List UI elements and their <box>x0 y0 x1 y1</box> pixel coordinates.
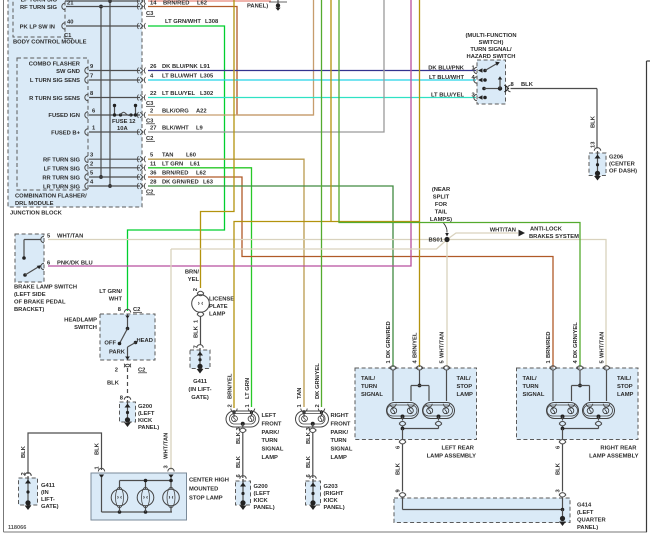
svg-text:PARK: PARK <box>109 350 126 356</box>
wire: BLK/WHT L9 to top edge <box>148 0 384 132</box>
svg-text:FUSED B+: FUSED B+ <box>51 131 80 137</box>
svg-text:LF TURN SIG: LF TURN SIG <box>21 0 58 4</box>
wire: DK GRN/YEL to right front lamp <box>321 0 323 407</box>
svg-text:LAMP: LAMP <box>617 392 634 398</box>
svg-text:WHT/TAN: WHT/TAN <box>57 234 83 240</box>
wire: BRN/RED L62 to right rear lamp <box>148 177 553 367</box>
svg-text:(IN LIFT-: (IN LIFT- <box>188 387 211 393</box>
wire: WHT/TAN stop lamp branch to BG01 <box>171 240 447 249</box>
svg-text:HEAD: HEAD <box>137 338 153 344</box>
svg-text:PLATE: PLATE <box>209 304 228 310</box>
wire: BLK/ORG vertical to top edge <box>237 0 314 115</box>
svg-text:STOP LAMP: STOP LAMP <box>189 496 223 502</box>
svg-text:SWITCH): SWITCH) <box>479 40 504 46</box>
svg-text:TURN: TURN <box>361 384 377 390</box>
svg-text:LIFT-: LIFT- <box>41 497 55 503</box>
svg-text:DK GRN/YEL: DK GRN/YEL <box>315 363 321 399</box>
ground G414 (left quarter panel) <box>394 498 606 531</box>
svg-text:DK GRN/RED: DK GRN/RED <box>162 180 199 186</box>
label C3 <box>146 11 155 17</box>
svg-text:BODY CONTROL MODULE: BODY CONTROL MODULE <box>13 40 87 46</box>
wire: DK GRN/YEL from top to right rear lamp <box>339 0 580 367</box>
svg-text:CENTER HIGH: CENTER HIGH <box>189 478 229 484</box>
svg-text:BLK: BLK <box>21 445 27 458</box>
svg-text:2: 2 <box>193 288 199 291</box>
wire: BRN/YEL vertical from top (feed) <box>330 0 332 222</box>
svg-text:KICK: KICK <box>138 418 153 424</box>
svg-text:36: 36 <box>150 171 157 177</box>
svg-text:40: 40 <box>67 20 73 26</box>
svg-text:JUNCTION BLOCK: JUNCTION BLOCK <box>10 211 63 217</box>
svg-text:(LEFT: (LEFT <box>577 510 594 516</box>
svg-text:L TURN SIG SENS: L TURN SIG SENS <box>30 78 80 84</box>
svg-text:G200: G200 <box>138 404 152 410</box>
svg-text:BLK: BLK <box>521 82 534 88</box>
wire segment right edge top corner <box>647 60 650 62</box>
svg-text:WHT/TAN: WHT/TAN <box>490 228 516 234</box>
svg-text:BLK: BLK <box>107 381 120 387</box>
svg-text:ANTI-LOCK: ANTI-LOCK <box>530 227 563 233</box>
ground (kick panel, cut off) <box>247 0 287 11</box>
svg-text:RIGHT: RIGHT <box>331 413 349 419</box>
svg-text:2: 2 <box>150 109 153 115</box>
lamp: center high mounted stop lamp <box>91 466 229 521</box>
node: BG01 splice callout <box>430 187 452 237</box>
wire: BLK/ORG A22 <box>148 114 314 116</box>
svg-text:2: 2 <box>315 404 321 407</box>
svg-text:TURN: TURN <box>331 438 347 444</box>
svg-text:PANEL): PANEL) <box>324 505 345 511</box>
lamp assembly: left rear (tail/turn + tail/stop) <box>355 321 477 497</box>
node BS01 splice dot <box>428 237 449 244</box>
svg-text:BLK: BLK <box>396 462 402 475</box>
svg-text:10A: 10A <box>117 126 128 132</box>
svg-text:STOP: STOP <box>457 384 473 390</box>
svg-text:L62: L62 <box>196 171 206 177</box>
svg-text:BS01: BS01 <box>428 238 443 244</box>
svg-text:KICK: KICK <box>254 498 269 504</box>
svg-text:LAMP: LAMP <box>457 392 474 398</box>
svg-text:A22: A22 <box>196 109 207 115</box>
svg-text:BLK 3: BLK 3 <box>236 426 242 444</box>
svg-text:TAIL/: TAIL/ <box>617 376 631 382</box>
wire: BRN/RED L62 from pin 14 (right, down, right, up offpage) <box>148 7 237 115</box>
wire: BLK dashed from headlamp switch to G200 <box>107 368 128 402</box>
wire: BLK from hazard switch to G206 <box>511 82 598 149</box>
svg-text:BRN/RED: BRN/RED <box>163 1 189 7</box>
wire: LT BLU/WHT L305 <box>148 79 476 81</box>
svg-text:COMBO FLASHER: COMBO FLASHER <box>29 62 81 68</box>
wire: DK BLU/PNK L91 <box>148 70 476 72</box>
svg-text:BRN/YEL: BRN/YEL <box>413 332 419 358</box>
ground G200 left kick panel (2) <box>236 476 275 511</box>
lamp: right front park/turn signal lamp <box>296 409 353 462</box>
wire: TAN L60 to right front lamp <box>148 159 304 407</box>
svg-text:14: 14 <box>150 1 157 7</box>
svg-text:BLK/WHT: BLK/WHT <box>162 126 189 132</box>
wire: LT GRN L61 to left front lamp <box>148 168 252 407</box>
node: R TURN SIG SENS pin 8 <box>29 91 213 102</box>
svg-text:BRACKET): BRACKET) <box>14 307 44 313</box>
svg-text:L302: L302 <box>200 91 213 97</box>
svg-text:G206: G206 <box>609 155 624 161</box>
node: L TURN SIG SENS pin 7 <box>30 74 214 85</box>
svg-text:L60: L60 <box>186 153 196 159</box>
svg-text:PANEL): PANEL) <box>577 525 598 531</box>
svg-text:BLK/ORG: BLK/ORG <box>162 109 189 115</box>
svg-text:LT BLU/YEL: LT BLU/YEL <box>431 93 465 99</box>
svg-text:FRONT: FRONT <box>262 421 282 427</box>
ground G203 (right kick panel) <box>306 476 345 511</box>
svg-text:FUSE 12: FUSE 12 <box>112 119 136 125</box>
wire: LT GRN/WHT L308 to headlamp switch <box>128 26 225 311</box>
svg-text:LAMP: LAMP <box>331 455 348 461</box>
svg-text:PARK/: PARK/ <box>331 430 349 436</box>
svg-text:LAMP: LAMP <box>209 312 226 318</box>
svg-text:SIGNAL: SIGNAL <box>361 392 383 398</box>
svg-text:(MULTI-FUNCTION: (MULTI-FUNCTION <box>465 33 516 39</box>
svg-text:LF TURN SIG: LF TURN SIG <box>44 166 81 172</box>
svg-text:L61: L61 <box>190 161 201 167</box>
node: PK LP SW IN pin 40 <box>20 19 219 31</box>
svg-text:(LEFT: (LEFT <box>254 491 271 497</box>
svg-text:(RIGHT: (RIGHT <box>324 491 344 497</box>
svg-text:PANEL): PANEL) <box>254 505 275 511</box>
svg-text:LAMP ASSEMBLY: LAMP ASSEMBLY <box>427 454 477 460</box>
svg-text:LT GRN: LT GRN <box>162 161 183 167</box>
wire: top cut pink wire to ground <box>148 0 271 2</box>
wire: PNK/DK BLU to top edge <box>48 0 411 266</box>
svg-text:TAN: TAN <box>297 388 303 399</box>
svg-text:COMBINATION FLASHER/: COMBINATION FLASHER/ <box>15 194 87 200</box>
svg-text:DK GRN/YEL: DK GRN/YEL <box>573 322 579 358</box>
page border bottom <box>4 531 648 533</box>
svg-text:HEADLAMP: HEADLAMP <box>64 318 97 324</box>
svg-text:YEL: YEL <box>188 277 200 283</box>
svg-text:28: 28 <box>150 180 157 186</box>
label C2 <box>146 136 155 142</box>
svg-text:DK BLU/PNK: DK BLU/PNK <box>162 64 199 70</box>
svg-text:DRL MODULE: DRL MODULE <box>15 201 54 207</box>
wire: BLK license lamp to G411 <box>194 316 201 349</box>
svg-text:BLK 3: BLK 3 <box>306 426 312 444</box>
ground G200 (left kick panel) <box>120 397 160 431</box>
svg-text:TAIL/: TAIL/ <box>361 376 375 382</box>
label C3 <box>146 119 155 125</box>
svg-text:2: 2 <box>115 368 118 374</box>
svg-text:27: 27 <box>150 126 156 132</box>
wire: junction tie LF-LR vertical <box>108 0 112 188</box>
wire: BLK CHMSL to liftgate ground <box>21 433 102 476</box>
svg-text:FRONT: FRONT <box>331 421 351 427</box>
svg-text:26: 26 <box>150 64 157 70</box>
svg-text:G203: G203 <box>324 484 339 490</box>
svg-text:LICENSE: LICENSE <box>209 297 234 303</box>
svg-text:LEFT REAR: LEFT REAR <box>441 446 474 452</box>
wire: WHT/TAN down to center stop lamp <box>164 249 172 470</box>
wire: LT BLU/YEL L302 <box>148 97 476 99</box>
svg-text:OF DASH): OF DASH) <box>609 169 637 175</box>
svg-text:TAIL/: TAIL/ <box>523 376 537 382</box>
svg-text:LT BLU/WHT: LT BLU/WHT <box>429 75 464 81</box>
svg-text:LT GRN/: LT GRN/ <box>99 289 122 295</box>
svg-text:WHT/TAN: WHT/TAN <box>600 332 606 358</box>
svg-text:RIGHT REAR: RIGHT REAR <box>600 446 637 452</box>
svg-text:BLK: BLK <box>236 455 242 468</box>
fuse F12 10A <box>112 104 137 132</box>
svg-text:L62: L62 <box>197 1 207 7</box>
svg-text:2: 2 <box>228 404 234 407</box>
svg-text:L63: L63 <box>203 180 214 186</box>
svg-text:(NEAR: (NEAR <box>432 187 451 193</box>
svg-text:L91: L91 <box>200 64 211 70</box>
svg-text:WHT/TAN: WHT/TAN <box>164 433 170 459</box>
svg-text:BLK: BLK <box>591 115 597 128</box>
node: LR TURN SIG pin 4 <box>43 180 214 191</box>
wire: BRN/YEL vertical top to left rear pin 4 <box>419 0 421 367</box>
node: COMBO FLASHER SW GND pin 9 <box>29 62 211 76</box>
svg-text:(CENTER: (CENTER <box>609 162 636 168</box>
svg-text:LAMPS): LAMPS) <box>430 217 452 223</box>
svg-text:MOUNTED: MOUNTED <box>189 487 218 493</box>
wire: BRN/YEL bus to front/rear lamps <box>234 222 420 409</box>
svg-text:118066: 118066 <box>8 525 26 531</box>
svg-text:BRN/RED: BRN/RED <box>546 332 552 358</box>
svg-text:SWITCH: SWITCH <box>74 325 97 331</box>
svg-text:7: 7 <box>90 74 93 80</box>
node: FUSED B+ pin 1 <box>51 126 203 137</box>
ground G411 (in liftgate) <box>188 345 211 401</box>
svg-text:PK LP SW IN: PK LP SW IN <box>20 25 55 31</box>
svg-text:G200: G200 <box>254 484 268 490</box>
svg-text:BRAKES SYSTEM: BRAKES SYSTEM <box>529 234 579 240</box>
svg-text:LR TURN SIG: LR TURN SIG <box>43 184 81 190</box>
svg-text:G414: G414 <box>577 503 592 509</box>
svg-text:G411: G411 <box>193 379 208 385</box>
svg-text:OFF: OFF <box>104 341 116 347</box>
svg-text:WHT: WHT <box>109 297 123 303</box>
svg-text:SIGNAL: SIGNAL <box>331 447 353 453</box>
svg-text:R TURN SIG SENS: R TURN SIG SENS <box>29 96 80 102</box>
switch: headlamp switch label <box>64 318 97 332</box>
svg-text:L305: L305 <box>200 74 214 80</box>
svg-text:WHT/TAN: WHT/TAN <box>440 332 446 358</box>
svg-text:BLK: BLK <box>194 325 200 338</box>
labels left front lamp pins <box>228 373 252 407</box>
svg-text:PANEL): PANEL) <box>247 4 268 10</box>
svg-text:BLK: BLK <box>95 442 101 455</box>
svg-text:TAIL: TAIL <box>435 210 448 216</box>
label C3 <box>146 101 155 107</box>
lamp assembly: right rear (tail/turn + tail/stop) <box>517 322 639 497</box>
svg-text:22: 22 <box>150 91 156 97</box>
combination flasher / DRL module box <box>15 58 88 207</box>
svg-text:LT GRN: LT GRN <box>245 378 251 399</box>
op: multi-function switch header <box>465 33 516 60</box>
svg-text:TURN: TURN <box>523 384 539 390</box>
svg-text:RR TURN SIG: RR TURN SIG <box>42 175 80 181</box>
svg-text:TAIL/: TAIL/ <box>457 376 471 382</box>
wire: WHT/TAN BG01 branch to anti-lock <box>447 233 518 240</box>
svg-text:FUSED IGN: FUSED IGN <box>48 113 80 119</box>
svg-text:SW GND: SW GND <box>56 69 80 75</box>
wire: BRN/YEL from top to license plate lamp <box>201 0 235 288</box>
ground G411 in liftgate (2) <box>19 473 59 510</box>
wire: right page edge vertical <box>646 61 648 532</box>
svg-text:GATE): GATE) <box>191 395 209 401</box>
svg-text:BRN/YEL: BRN/YEL <box>228 373 234 399</box>
page border left <box>3 0 5 532</box>
label C1 <box>64 33 73 39</box>
label C2 <box>146 190 155 196</box>
svg-text:BRAKE LAMP SWITCH: BRAKE LAMP SWITCH <box>14 285 77 291</box>
svg-text:LT BLU/WHT: LT BLU/WHT <box>162 74 197 80</box>
lamp: left front park/turn signal lamp <box>226 409 284 462</box>
wire: DK GRN/RED L63 to left rear lamp <box>148 186 393 367</box>
svg-text:STOP: STOP <box>617 384 633 390</box>
svg-text:LT GRN/WHT: LT GRN/WHT <box>165 19 201 25</box>
svg-text:FOR: FOR <box>435 202 448 208</box>
multi-function switch box U1 <box>428 60 514 104</box>
wire: WHT/TAN BG01 down to left rear <box>446 240 448 368</box>
svg-text:DK BLU/PNK: DK BLU/PNK <box>428 66 465 72</box>
svg-text:PANEL): PANEL) <box>138 425 159 431</box>
svg-text:TAN: TAN <box>162 153 173 159</box>
svg-text:SIGNAL: SIGNAL <box>523 392 545 398</box>
svg-text:2: 2 <box>90 161 93 167</box>
body control module box <box>13 0 87 46</box>
ground G206 (center of dash) <box>589 148 637 181</box>
svg-text:DK GRN/RED: DK GRN/RED <box>386 321 392 358</box>
svg-text:HAZARD SWITCH: HAZARD SWITCH <box>467 54 516 60</box>
node: anti-lock brakes system arrow <box>490 227 579 241</box>
svg-text:BRN/: BRN/ <box>185 270 200 276</box>
svg-text:OF BRAKE PEDAL: OF BRAKE PEDAL <box>14 300 66 306</box>
svg-text:13: 13 <box>591 141 597 148</box>
svg-text:BRN/RED: BRN/RED <box>162 171 188 177</box>
svg-text:SPLIT: SPLIT <box>433 195 450 201</box>
svg-text:21: 21 <box>67 1 74 7</box>
svg-text:GATE): GATE) <box>41 504 59 510</box>
node: LF TURN SIG pin 2 <box>44 161 201 172</box>
lamp: license plate lamp <box>185 270 234 318</box>
svg-text:LT BLU/YEL: LT BLU/YEL <box>162 91 196 97</box>
node: junction edge pin 2 BLK/ORG <box>137 109 206 119</box>
svg-text:L9: L9 <box>196 126 204 132</box>
svg-text:QUARTER: QUARTER <box>577 518 606 524</box>
svg-text:G411: G411 <box>41 483 56 489</box>
svg-text:PARK/: PARK/ <box>262 430 280 436</box>
svg-text:TURN SIGNAL/: TURN SIGNAL/ <box>470 47 512 53</box>
svg-text:11: 11 <box>150 161 157 167</box>
svg-text:LAMP ASSEMBLY: LAMP ASSEMBLY <box>589 454 639 460</box>
svg-text:KICK: KICK <box>324 498 339 504</box>
node: LF TURN SIG row (cut off) <box>21 0 146 4</box>
node: RF TURN SIG pin 21 <box>20 1 207 12</box>
svg-text:(LEFT: (LEFT <box>138 411 155 417</box>
svg-text:BLK: BLK <box>556 462 562 475</box>
svg-text:TURN: TURN <box>262 438 278 444</box>
svg-text:L308: L308 <box>205 19 219 25</box>
node: RR TURN SIG pin 5 <box>42 171 206 182</box>
node: FUSED IGN pin 6 <box>48 109 140 120</box>
svg-text:BLK: BLK <box>306 455 312 468</box>
svg-text:(LEFT SIDE: (LEFT SIDE <box>14 292 46 298</box>
wire: WHT/TAN from brake switch to rear lamps <box>48 240 606 368</box>
svg-text:(IN: (IN <box>41 490 49 496</box>
svg-text:RF TURN SIG: RF TURN SIG <box>20 5 58 11</box>
svg-text:RF TURN SIG: RF TURN SIG <box>43 158 81 164</box>
svg-text:SIGNAL: SIGNAL <box>262 447 284 453</box>
svg-text:LAMP: LAMP <box>262 455 279 461</box>
wire: BLK left front lamp to G200 <box>236 426 243 478</box>
node: RF TURN SIG pin 3 <box>43 153 196 164</box>
svg-text:LEFT: LEFT <box>262 413 277 419</box>
switch: headlamp switch <box>99 289 155 374</box>
switch: brake lamp switch <box>14 234 93 314</box>
wire: junction tie RF-RR vertical <box>99 5 103 179</box>
labels right front lamp pins <box>297 363 321 408</box>
junction block (outer dashed box) <box>8 0 142 217</box>
wire: BLK right front lamp to G203 <box>306 426 313 478</box>
